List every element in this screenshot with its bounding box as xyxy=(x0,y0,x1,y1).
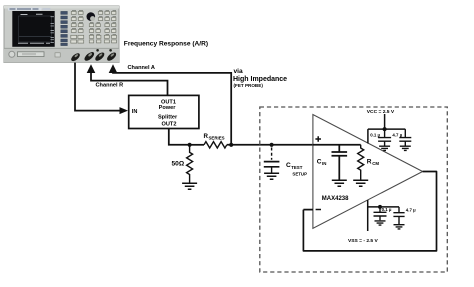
svg-text:50Ω: 50Ω xyxy=(172,160,185,167)
connector B input xyxy=(94,51,106,62)
svg-text:MAX4238: MAX4238 xyxy=(322,196,349,202)
wire channel A xyxy=(113,72,231,145)
svg-text:Power: Power xyxy=(159,105,177,111)
capacitor 0.1u VSS xyxy=(374,207,387,220)
analyzer screen xyxy=(12,11,54,47)
capacitor Ctest xyxy=(264,162,280,167)
svg-text:TEST: TEST xyxy=(291,165,303,170)
ground Cin xyxy=(332,180,347,186)
ground 50ohm xyxy=(182,183,197,189)
svg-text:4.7 µ: 4.7 µ xyxy=(392,132,402,137)
ground 0.1u VCC xyxy=(379,146,390,150)
screw dots xyxy=(96,49,99,52)
svg-text:VCC = 2.5 V: VCC = 2.5 V xyxy=(367,109,395,115)
wire minus input xyxy=(303,209,313,211)
ground 0.1u VSS xyxy=(375,221,386,225)
minus sign xyxy=(316,209,321,211)
svg-text:IN: IN xyxy=(132,109,138,115)
arrowhead channel R xyxy=(87,64,96,73)
svg-text:Channel A: Channel A xyxy=(128,65,155,71)
svg-text:VSS = - 2.5 V: VSS = - 2.5 V xyxy=(348,238,379,244)
wire OUT2 down to main node xyxy=(169,129,190,145)
op-amp MAX4238 triangle xyxy=(313,115,423,229)
plus sign xyxy=(315,136,321,142)
capacitor 0.1u VCC xyxy=(378,129,391,146)
svg-text:OUT2: OUT2 xyxy=(162,121,177,127)
svg-text:via: via xyxy=(234,68,243,75)
svg-text:High Impedance: High Impedance xyxy=(233,76,287,83)
rotary knob xyxy=(87,12,96,21)
capacitor Cin xyxy=(332,145,348,180)
wire VSS bus xyxy=(368,206,399,208)
connector RF out xyxy=(70,52,81,63)
wire to Rseries xyxy=(190,144,204,146)
capacitor Ctest dashed stub xyxy=(271,148,273,160)
svg-text:Channel R: Channel R xyxy=(96,83,124,89)
resistor Rseries xyxy=(204,142,227,148)
capacitor 4.7u VCC xyxy=(399,129,411,146)
node dot Ctest tap xyxy=(270,143,274,147)
ground 4.7u VCC xyxy=(400,146,411,150)
connector A input xyxy=(106,51,118,62)
svg-text:Splitter: Splitter xyxy=(158,114,178,120)
wire VSS pin down xyxy=(367,200,369,231)
arrowhead into IN xyxy=(120,107,129,114)
small key xyxy=(55,53,60,57)
svg-text:SERIES: SERIES xyxy=(209,136,225,141)
softkey column xyxy=(61,11,68,45)
bottom panel strip xyxy=(4,48,119,62)
dashed boundary box xyxy=(260,107,448,272)
wire RF out to splitter xyxy=(75,63,120,111)
analyzer body xyxy=(4,6,119,63)
svg-text:IN: IN xyxy=(322,161,326,166)
floppy drive xyxy=(18,52,45,57)
capacitor 4.7u VSS xyxy=(393,207,404,224)
wire channel R xyxy=(91,72,168,95)
node dot VSS xyxy=(378,205,382,209)
node dot channel A probe xyxy=(229,143,233,147)
svg-text:0.1 µ: 0.1 µ xyxy=(382,207,392,212)
wire VCC down xyxy=(384,114,386,129)
ground Rcm xyxy=(353,180,368,186)
svg-text:CM: CM xyxy=(372,161,379,166)
svg-text:0.1 µ: 0.1 µ xyxy=(370,132,380,137)
node dot 50ohm tap xyxy=(188,143,192,147)
probe power circle xyxy=(9,51,15,57)
power splitter box xyxy=(129,95,199,128)
node dot VCC xyxy=(383,127,387,131)
keypad buttons xyxy=(71,11,117,43)
resistor 50ohm xyxy=(187,145,193,183)
wire internal input node xyxy=(313,144,361,146)
arrowhead channel A xyxy=(109,64,118,73)
connector R input xyxy=(83,50,96,62)
wire VCC bus xyxy=(368,129,405,143)
keypad legends xyxy=(72,10,116,34)
analyzer title bar xyxy=(8,8,42,11)
wire Rseries to node xyxy=(227,144,313,146)
ground 4.7u VSS xyxy=(394,225,405,229)
wire output feedback loop xyxy=(303,172,436,251)
resistor Rcm xyxy=(358,145,364,180)
svg-text:4.7 µ: 4.7 µ xyxy=(406,207,416,212)
svg-text:SETUP: SETUP xyxy=(292,172,307,177)
ground Ctest xyxy=(271,167,273,173)
svg-text:R: R xyxy=(367,159,372,166)
svg-text:Frequency Response (A/R): Frequency Response (A/R) xyxy=(124,40,208,47)
svg-text:(FET PROBE): (FET PROBE) xyxy=(234,83,264,88)
